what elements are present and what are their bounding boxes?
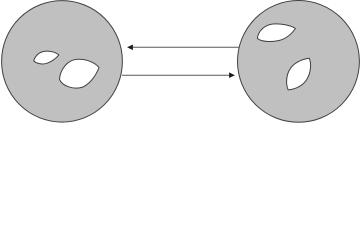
left-pointing arrow (top): head bbox=[127, 45, 133, 51]
right-pointing arrow (bottom): head bbox=[229, 72, 235, 78]
lower vesicle in right cell bbox=[287, 58, 311, 90]
right-pointing arrow (bottom): wire/shaft bbox=[122, 74, 229, 76]
right cell (circle) bbox=[238, 1, 360, 123]
left cell (circle) bbox=[2, 1, 123, 123]
upper vesicle in right cell bbox=[257, 24, 295, 42]
large vesicle in left cell bbox=[60, 59, 100, 88]
left-pointing arrow (top): wire/shaft bbox=[133, 46, 239, 48]
small vesicle in left cell bbox=[34, 51, 59, 64]
